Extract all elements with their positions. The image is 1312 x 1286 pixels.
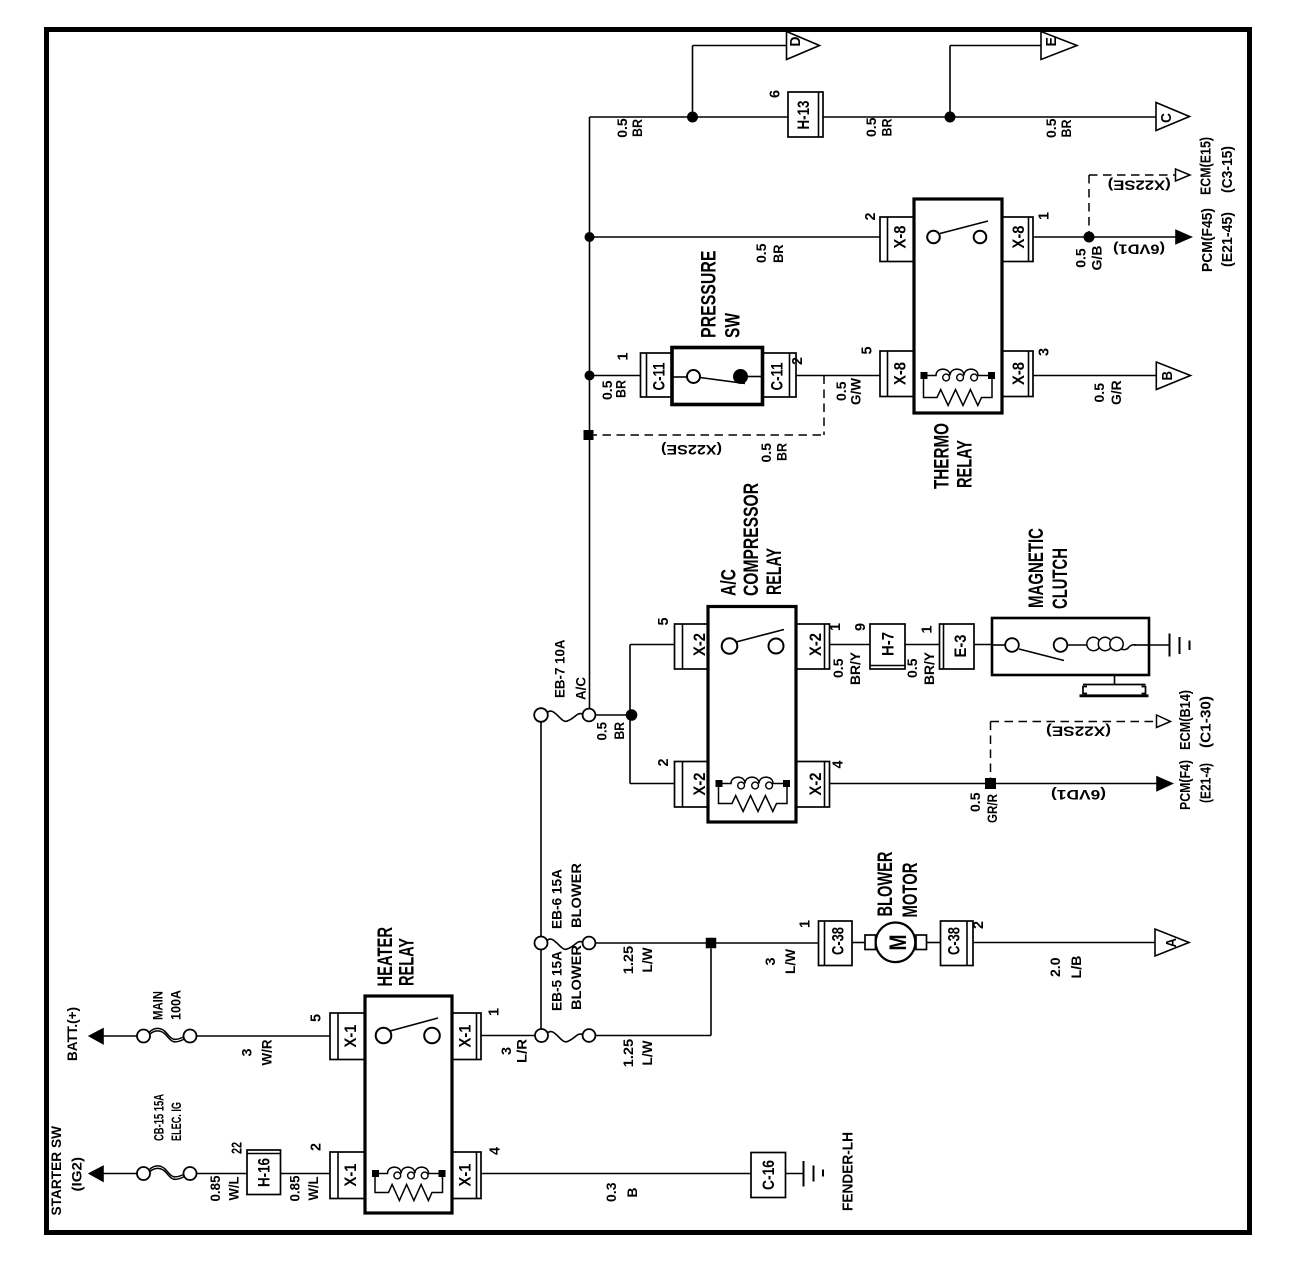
label MAGNETIC CLUTCH <box>1025 528 1072 609</box>
pin 2 of C-11 <box>789 357 806 365</box>
label 0.5 BR ac feed <box>594 722 628 741</box>
label (X22SE) ac <box>1046 724 1111 740</box>
pin 1 of X-1 <box>486 1008 503 1016</box>
svg-text:0.3: 0.3 <box>603 1182 619 1202</box>
svg-text:0.5: 0.5 <box>614 118 630 138</box>
svg-text:3: 3 <box>762 957 778 965</box>
wire branch up to D <box>693 46 787 118</box>
svg-text:2: 2 <box>655 759 672 767</box>
connector X-8 pin2 <box>880 217 914 262</box>
thermo relay switch contacts <box>927 221 988 243</box>
pin 9 of H-7 <box>852 623 869 631</box>
component box MAGNETIC CLUTCH <box>992 618 1149 675</box>
node blower junction <box>706 938 717 949</box>
svg-text:G/B: G/B <box>1089 246 1105 271</box>
pin 6 of H-13 <box>767 90 784 98</box>
svg-text:C-16: C-16 <box>759 1160 778 1190</box>
svg-text:(X22SE): (X22SE) <box>1108 178 1171 194</box>
svg-text:(IG2): (IG2) <box>69 1157 85 1192</box>
connector X-1 pin1 <box>452 1013 481 1060</box>
svg-text:(C1-30): (C1-30) <box>1198 696 1215 748</box>
svg-text:0.5: 0.5 <box>1043 118 1059 138</box>
svg-text:5: 5 <box>859 347 876 355</box>
wire main BR bus vertical <box>589 117 591 709</box>
label EB-6 15A BLOWER <box>549 863 585 929</box>
connector arrow BATT <box>90 1029 104 1044</box>
switch box PRESSURE SW <box>672 348 763 405</box>
svg-text:6: 6 <box>767 90 784 98</box>
node X22SE square junction <box>584 430 594 440</box>
label 0.85 W/L second <box>287 1175 322 1201</box>
label THERMO RELAY <box>931 423 977 489</box>
svg-text:EB-7 10A: EB-7 10A <box>552 640 568 699</box>
svg-text:(6VD1): (6VD1) <box>1113 242 1165 258</box>
svg-text:C-11: C-11 <box>768 363 787 391</box>
svg-text:MAGNETIC: MAGNETIC <box>1025 528 1048 608</box>
relay box A/C COMPRESSOR RELAY <box>708 607 796 823</box>
svg-text:X-1: X-1 <box>456 1025 475 1048</box>
svg-text:X-1: X-1 <box>341 1164 360 1187</box>
svg-text:BR: BR <box>613 380 629 398</box>
label 0.5 G/R <box>1091 380 1124 405</box>
svg-text:ECM(E15): ECM(E15) <box>1198 137 1215 195</box>
svg-text:EB-5 15A: EB-5 15A <box>549 951 565 1011</box>
svg-text:0.85: 0.85 <box>207 1175 223 1201</box>
wire C-11 pin2 to X-8 pin5 <box>796 375 880 377</box>
svg-text:GR/R: GR/R <box>984 794 1000 823</box>
label 0.3 B <box>603 1182 640 1202</box>
wire to X-2 pin2 <box>630 783 675 785</box>
svg-text:B: B <box>624 1188 640 1198</box>
node junction bus-pressure <box>585 371 595 381</box>
svg-text:G/W: G/W <box>848 377 864 405</box>
svg-text:2.0: 2.0 <box>1047 957 1063 977</box>
label A/C COMPRESSOR RELAY <box>718 483 787 596</box>
svg-text:PCM(F45): PCM(F45) <box>1199 208 1216 272</box>
thermo relay coil <box>921 369 996 405</box>
svg-text:1: 1 <box>486 1008 503 1016</box>
connector C-11 pin1 <box>641 353 673 397</box>
svg-text:COMPRESSOR: COMPRESSOR <box>740 483 763 596</box>
label 2.0 L/B <box>1047 956 1084 979</box>
svg-text:L/R: L/R <box>514 1039 530 1063</box>
label 0.5 BR before C <box>1043 118 1074 138</box>
label (6VD1) ac <box>1051 787 1106 803</box>
label 3 L/R <box>498 1039 530 1063</box>
svg-text:RELAY: RELAY <box>763 548 786 595</box>
connector arrow B <box>1156 362 1190 390</box>
svg-text:0.85: 0.85 <box>287 1175 303 1201</box>
clutch pulley <box>1080 675 1149 696</box>
fuse H-7 <box>870 624 905 669</box>
connector X-1 pin4 <box>452 1152 481 1199</box>
svg-text:HEATER: HEATER <box>374 927 397 987</box>
svg-text:MOTOR: MOTOR <box>899 863 922 918</box>
svg-text:X-1: X-1 <box>341 1025 360 1048</box>
connector C-38 pin2 <box>941 921 974 966</box>
pin 2 of X-1 <box>308 1143 325 1151</box>
svg-text:0.5: 0.5 <box>830 658 846 678</box>
label EB-5 15A BLOWER <box>549 945 585 1011</box>
svg-text:0.5: 0.5 <box>1073 248 1089 268</box>
relay box THERMO RELAY <box>914 199 1002 413</box>
label 1.25 L/W eb5 <box>620 1039 655 1068</box>
svg-text:(E21-4): (E21-4) <box>1198 763 1215 803</box>
connector X-2 pin1 <box>796 624 830 669</box>
svg-text:2: 2 <box>970 921 987 929</box>
svg-text:BLOWER: BLOWER <box>568 863 584 928</box>
svg-text:1: 1 <box>827 623 844 631</box>
connector open arrow ECM(B14) <box>1157 715 1171 728</box>
svg-text:3: 3 <box>498 1047 514 1055</box>
wire STARTER to fuse <box>103 1173 137 1175</box>
svg-text:X-8: X-8 <box>1009 362 1028 385</box>
fuse CB-15 <box>137 1166 197 1180</box>
svg-text:0.5: 0.5 <box>1091 383 1107 403</box>
wire dashed X22SE bypass <box>589 376 825 436</box>
ac relay coil <box>716 777 791 811</box>
wire fuse to H-16 <box>197 1173 248 1175</box>
svg-text:W/L: W/L <box>226 1176 242 1200</box>
wire EB-7 to junction <box>596 714 627 716</box>
label STARTER SW (IG2) <box>48 1125 85 1215</box>
svg-text:MAIN: MAIN <box>150 991 166 1020</box>
node junction to D <box>687 112 698 123</box>
svg-text:1: 1 <box>615 353 632 361</box>
wire to X-2 pin5 <box>630 644 675 646</box>
svg-text:1.25: 1.25 <box>620 1039 636 1068</box>
connector C-38 pin1 <box>819 921 853 966</box>
pin 1 of C-11 <box>615 353 632 361</box>
wire dashed to ECM E15 <box>1089 175 1175 237</box>
pressure switch contacts <box>672 369 763 384</box>
svg-text:E: E <box>1043 37 1060 47</box>
svg-text:1: 1 <box>797 920 814 928</box>
connector X-2 pin4 <box>796 762 830 808</box>
connector X-2 pin2 <box>675 762 710 808</box>
svg-text:FENDER-LH: FENDER-LH <box>840 1132 857 1211</box>
svg-text:RELAY: RELAY <box>396 938 419 986</box>
svg-text:W/R: W/R <box>259 1040 275 1066</box>
pin 22 of H-16 <box>229 1142 246 1154</box>
svg-text:CLUTCH: CLUTCH <box>1049 548 1072 609</box>
svg-text:A/C: A/C <box>718 569 741 596</box>
wire bus to C-11 pin1 <box>590 375 641 377</box>
label 0.5 BR top-left <box>614 118 645 138</box>
svg-text:EB-6 15A: EB-6 15A <box>549 869 565 929</box>
heater relay coil <box>372 1167 446 1200</box>
svg-text:4: 4 <box>830 760 847 769</box>
wire X-1 pin1 to EB-5 <box>481 1035 535 1037</box>
svg-text:X-2: X-2 <box>806 633 825 656</box>
svg-text:5: 5 <box>655 618 672 626</box>
clutch coil <box>1067 637 1149 650</box>
svg-text:0.5: 0.5 <box>594 722 610 741</box>
svg-text:0.5: 0.5 <box>904 658 920 678</box>
clutch switch contacts <box>992 638 1067 660</box>
label (E21-4) <box>1198 763 1215 803</box>
svg-text:X-1: X-1 <box>456 1164 475 1187</box>
svg-text:X-2: X-2 <box>690 773 709 796</box>
ground clutch <box>1149 634 1190 657</box>
label CB-15 15A ELEC. IG <box>151 1094 185 1141</box>
label 0.5 G/B <box>1073 246 1105 271</box>
svg-text:L/W: L/W <box>639 1040 655 1066</box>
pin 4 of X-1 <box>487 1146 504 1155</box>
connector filled arrow PCM(F4) <box>1157 777 1172 791</box>
svg-text:BR/Y: BR/Y <box>921 651 937 685</box>
connector X-1 pin2 <box>330 1152 365 1199</box>
svg-text:C-11: C-11 <box>650 363 669 391</box>
fuse H-16 <box>247 1150 281 1195</box>
svg-text:A/C: A/C <box>573 677 589 700</box>
svg-text:C-38: C-38 <box>945 927 964 955</box>
wire EB-6 to junction <box>596 942 819 944</box>
connector C-16 <box>751 1153 786 1198</box>
connector E-3 <box>940 624 975 669</box>
pin 2 of X-2 <box>655 759 672 767</box>
label BLOWER MOTOR <box>874 852 922 918</box>
svg-text:L/W: L/W <box>782 948 798 974</box>
fuse MAIN 100A <box>137 1028 197 1042</box>
label (C3-15) <box>1219 146 1236 193</box>
svg-text:(X22SE): (X22SE) <box>661 442 722 458</box>
wire branch up to E <box>950 46 1041 118</box>
pin 5 of X-2 <box>655 618 672 626</box>
wire EB-7 to EB-6 vertical <box>540 722 542 937</box>
fuse EB-5 <box>535 1029 595 1042</box>
label 0.5 GR/R <box>967 792 1000 823</box>
svg-text:H-16: H-16 <box>255 1158 274 1187</box>
svg-text:C: C <box>1158 113 1175 123</box>
connector X-8 pin3 <box>1002 351 1033 397</box>
pin 1 of E-3 <box>919 626 936 634</box>
wire H-7 to E-3 <box>905 644 940 646</box>
label MAIN 100A <box>150 990 184 1020</box>
connector filled arrow PCM(F45) <box>1176 231 1191 244</box>
svg-text:H-7: H-7 <box>879 632 898 656</box>
svg-text:(6VD1): (6VD1) <box>1051 787 1106 803</box>
label 1.25 L/W eb6 <box>620 946 655 975</box>
wire E-3 to clutch <box>974 644 992 646</box>
svg-text:X-2: X-2 <box>806 773 825 796</box>
wire EB-6 to EB-5 vertical <box>540 950 542 1030</box>
label ECM(B14) <box>1177 690 1194 750</box>
connector C-11 pin2 <box>763 353 797 397</box>
label (6VD1) thermo <box>1113 242 1165 258</box>
connector X-2 pin5 <box>675 624 710 669</box>
wire junction vertical <box>629 645 631 784</box>
svg-text:0.5: 0.5 <box>753 243 769 263</box>
pin 2 of X-8 <box>862 213 879 221</box>
label BATT.(+) <box>64 1007 80 1061</box>
svg-text:CB-15 15A: CB-15 15A <box>151 1094 167 1141</box>
connector arrow STARTER <box>90 1167 104 1182</box>
pin 1 of C-38 <box>797 920 814 928</box>
label 0.5 BR/Y first <box>830 651 863 685</box>
svg-text:SW: SW <box>722 313 745 338</box>
svg-text:X-2: X-2 <box>690 633 709 656</box>
wire C-38 pin2 to A <box>973 942 1155 944</box>
pin 2 of C-38 <box>970 921 987 929</box>
label 0.5 BR dashed <box>758 443 790 463</box>
svg-text:C-38: C-38 <box>829 927 848 955</box>
heater relay switch contacts <box>376 1018 440 1043</box>
wire top BR bus horizontal right of H-13 <box>823 116 1156 118</box>
node junction to E <box>945 112 956 123</box>
connector X-1 pin5 <box>330 1013 365 1060</box>
pin 1 of X-2 <box>827 623 844 631</box>
svg-text:D: D <box>787 36 804 46</box>
pin 5 of X-8 <box>859 347 876 355</box>
svg-text:X-8: X-8 <box>891 362 910 385</box>
svg-text:BR: BR <box>879 119 895 137</box>
svg-text:BR: BR <box>774 443 790 461</box>
pin 5 of X-1 <box>308 1014 325 1022</box>
svg-text:BATT.(+): BATT.(+) <box>64 1007 80 1061</box>
label 0.5 BR/Y second <box>904 651 937 685</box>
wire X-8 pin3 to B <box>1033 375 1156 377</box>
ac relay switch contacts <box>722 630 784 654</box>
label (X22SE) thermo <box>1108 178 1171 194</box>
blower motor <box>852 923 941 963</box>
label ECM(E15) <box>1198 137 1215 195</box>
svg-text:PRESSURE: PRESSURE <box>698 251 721 339</box>
svg-text:0.5: 0.5 <box>863 117 879 137</box>
wire X-2 pin1 to H-7 <box>830 644 871 646</box>
label (C1-30) <box>1198 696 1215 748</box>
connector arrow E <box>1041 32 1077 60</box>
wire H-16 to X-1 pin2 <box>281 1173 331 1175</box>
label 3 L/W <box>762 948 798 974</box>
wire X-1 pin4 to C-16 <box>481 1173 751 1175</box>
label 0.85 W/L first <box>207 1175 242 1201</box>
svg-text:0.5: 0.5 <box>758 443 774 463</box>
svg-text:1.25: 1.25 <box>620 946 636 975</box>
svg-text:PCM(F4): PCM(F4) <box>1177 760 1194 810</box>
wire X-2 pin4 to PCM <box>830 783 1158 785</box>
wire bus to X-8 pin2 <box>590 236 881 238</box>
connector arrow D <box>787 32 820 60</box>
fuse H-13 <box>788 92 823 137</box>
svg-text:4: 4 <box>487 1146 504 1155</box>
svg-text:100A: 100A <box>168 990 184 1020</box>
connector X-8 pin5 <box>880 351 914 397</box>
label (X22SE) pressure <box>661 442 722 458</box>
node junction A/C relay feed <box>626 709 638 721</box>
svg-text:L/W: L/W <box>639 947 655 973</box>
svg-text:0.5: 0.5 <box>967 792 983 812</box>
svg-text:3: 3 <box>239 1048 255 1056</box>
svg-text:5: 5 <box>308 1014 325 1022</box>
svg-text:1: 1 <box>1036 212 1053 220</box>
svg-text:STARTER SW: STARTER SW <box>48 1125 64 1215</box>
svg-text:A: A <box>1163 938 1180 948</box>
wire top BR bus horizontal left <box>590 116 789 118</box>
label 3 W/R <box>239 1040 275 1066</box>
svg-text:1: 1 <box>919 626 936 634</box>
wire X-8 pin1 to PCM <box>1033 236 1176 238</box>
label 0.5 BR pressure feed <box>599 380 629 400</box>
svg-text:M: M <box>885 935 912 951</box>
svg-text:(E21-45): (E21-45) <box>1219 212 1236 267</box>
svg-text:BR/Y: BR/Y <box>847 651 863 685</box>
svg-text:G/R: G/R <box>1108 380 1124 405</box>
ground FENDER-LH <box>786 1161 824 1187</box>
pin 3 of X-8 <box>1036 348 1053 356</box>
svg-text:BR: BR <box>611 722 627 740</box>
connector open arrow ECM(E15) <box>1176 169 1191 181</box>
connector arrow A <box>1155 929 1189 956</box>
svg-text:22: 22 <box>229 1142 246 1154</box>
svg-text:2: 2 <box>789 357 806 365</box>
label PCM(F4) <box>1177 760 1194 810</box>
svg-text:X-8: X-8 <box>891 226 910 249</box>
svg-text:(X22SE): (X22SE) <box>1046 724 1111 740</box>
svg-text:(C3-15): (C3-15) <box>1219 146 1236 193</box>
pin 1 of X-8 <box>1036 212 1053 220</box>
label 0.5 BR after H-13 <box>863 117 895 137</box>
svg-text:H-13: H-13 <box>794 101 813 130</box>
label (E21-45) <box>1219 212 1236 267</box>
node junction G/B dashed <box>1084 232 1095 243</box>
svg-text:BR: BR <box>770 245 786 264</box>
svg-text:E-3: E-3 <box>951 635 970 658</box>
svg-text:RELAY: RELAY <box>954 440 977 488</box>
label 0.5 BR thermo feed <box>753 243 786 263</box>
wire fuse to X-1 pin5 <box>197 1035 331 1037</box>
label FENDER-LH <box>840 1132 857 1211</box>
label HEATER RELAY <box>374 927 419 987</box>
svg-text:THERMO: THERMO <box>931 423 954 489</box>
relay box HEATER RELAY <box>365 996 452 1213</box>
svg-text:BR: BR <box>629 119 645 137</box>
node GR/R square junction <box>985 778 996 789</box>
label 0.5 G/W <box>833 377 864 405</box>
fuse EB-7 <box>534 708 595 722</box>
label EB-7 10A A/C <box>552 640 589 701</box>
connector arrow C <box>1156 103 1190 131</box>
svg-text:3: 3 <box>1036 348 1053 356</box>
svg-text:L/B: L/B <box>1068 956 1084 979</box>
svg-text:9: 9 <box>852 623 869 631</box>
svg-text:2: 2 <box>862 213 879 221</box>
svg-text:B: B <box>1159 371 1176 381</box>
svg-text:X-8: X-8 <box>1009 226 1028 249</box>
svg-text:2: 2 <box>308 1143 325 1151</box>
svg-text:BLOWER: BLOWER <box>568 945 584 1010</box>
node junction bus-thermo <box>585 232 595 242</box>
svg-text:W/L: W/L <box>305 1176 321 1200</box>
pin 4 of X-2 <box>830 760 847 769</box>
svg-text:ECM(B14): ECM(B14) <box>1177 690 1194 750</box>
wire EB-5 loop to junction <box>596 949 712 1036</box>
svg-text:BR: BR <box>1058 120 1074 138</box>
fuse EB-6 <box>535 937 596 950</box>
wire BATT to fuse <box>103 1035 137 1037</box>
label PRESSURE SW <box>698 251 745 339</box>
svg-text:ELEC. IG: ELEC. IG <box>168 1102 184 1141</box>
svg-text:BLOWER: BLOWER <box>874 852 897 917</box>
connector X-8 pin1 <box>1002 217 1033 262</box>
label PCM(F45) <box>1199 208 1216 272</box>
wire dashed to ECM B14 <box>991 722 1157 779</box>
